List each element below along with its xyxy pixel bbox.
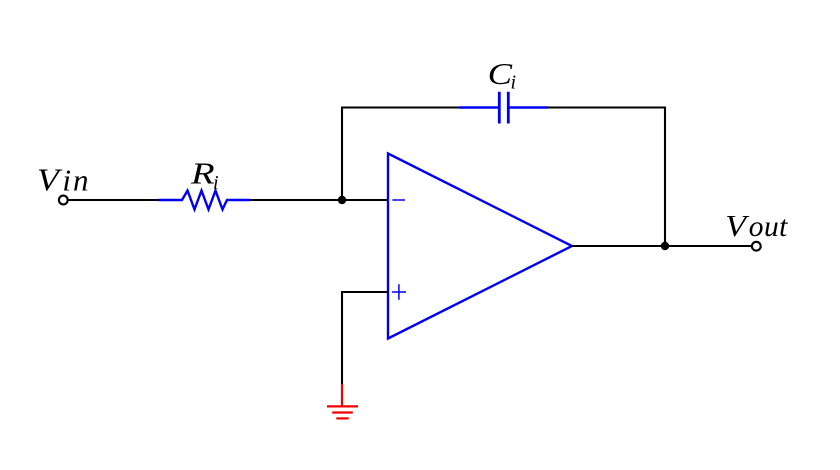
svg-text:in: in xyxy=(62,162,90,197)
wire feedback right vertical xyxy=(664,107,666,247)
svg-text:V: V xyxy=(37,163,63,198)
svg-text:out: out xyxy=(749,211,788,243)
wire resistor to node xyxy=(251,199,388,201)
wire Vin lead xyxy=(68,199,159,201)
svg-text:C: C xyxy=(488,57,513,91)
node B (output junction) xyxy=(661,242,669,250)
svg-text:i: i xyxy=(213,172,219,194)
label Vin xyxy=(37,162,91,198)
svg-text:i: i xyxy=(511,72,517,94)
label Ri xyxy=(190,156,219,194)
wire op-amp output xyxy=(572,245,752,247)
wire plus input xyxy=(342,292,388,384)
capacitor Ci xyxy=(459,92,548,124)
wire feedback top rail right xyxy=(548,106,665,108)
op-amp minus sign xyxy=(392,199,405,201)
ground xyxy=(327,406,358,418)
terminal Vout xyxy=(752,242,761,251)
op-amp plus sign xyxy=(392,284,406,299)
terminal Vin xyxy=(59,196,68,205)
node A (inverting input junction) xyxy=(338,196,346,204)
label Vout xyxy=(725,210,788,244)
svg-text:V: V xyxy=(725,210,749,244)
wire feedback top rail left xyxy=(341,106,459,108)
wire feedback left vertical xyxy=(341,108,343,202)
svg-text:R: R xyxy=(190,156,215,190)
label Ci xyxy=(488,57,516,93)
ground stem xyxy=(341,384,343,406)
op-amp U1 xyxy=(388,154,572,339)
resistor Ri xyxy=(159,191,251,210)
